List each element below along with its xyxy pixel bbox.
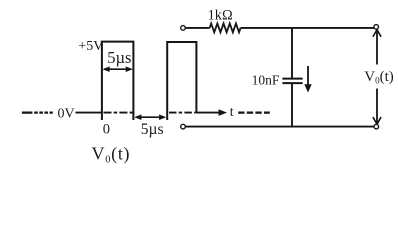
wire: axis dashes after t (238, 111, 270, 113)
label t (230, 105, 234, 120)
svg-text:0V: 0V (58, 107, 75, 122)
wire: top terminal to resistor (185, 27, 209, 29)
capacitor C1 plates (282, 79, 302, 84)
svg-text:10nF: 10nF (252, 72, 280, 87)
wire: resistor to top-right corner (241, 27, 375, 29)
arrow: Vo(t) measurement double arrow lower segment (373, 89, 381, 125)
label 5us gap (141, 121, 164, 138)
pulse 1 of V0(t) waveform (102, 42, 133, 120)
wire: axis dash-dot under pulse 1 (104, 112, 133, 114)
arrow: 5us gap between pulses (134, 114, 166, 120)
label 10nF (252, 72, 280, 87)
node: bottom input terminal (181, 124, 186, 129)
resistor R1 (210, 24, 241, 33)
label +5V (78, 39, 103, 54)
label Vo(t) output (364, 69, 394, 86)
wire: capacitor branch bottom (291, 84, 293, 128)
label 0V (58, 107, 75, 122)
arrow: Vo(t) measurement double arrow upper segment (373, 30, 381, 65)
pulse 2 of V0(t) waveform (167, 42, 196, 120)
svg-text:0: 0 (103, 121, 110, 137)
svg-text:+5V: +5V (78, 39, 103, 54)
node: bottom output terminal (374, 124, 379, 129)
label 5us pulse width (107, 48, 131, 67)
wire: 0V axis dash-dot lead-in (22, 111, 53, 113)
svg-text:V0(t): V0(t) (92, 144, 131, 166)
wire: axis solid segment before pulse 1 (76, 112, 103, 114)
wire: axis dash-dot under pulse 2 (169, 112, 195, 114)
wire: capacitor branch top (291, 28, 293, 78)
wire: axis solid to t arrow (196, 109, 227, 116)
label 0 (origin) (103, 121, 110, 137)
label 1kOhm (208, 7, 233, 23)
svg-text:t: t (230, 105, 234, 120)
svg-text:5µs: 5µs (107, 48, 131, 67)
arrow: capacitor current direction (304, 66, 311, 93)
arrow: 5us width of pulse 1 (103, 66, 133, 72)
svg-text:5µs: 5µs (141, 121, 164, 138)
node: top input terminal (181, 26, 186, 31)
svg-text:V0(t): V0(t) (364, 69, 394, 86)
wire: bottom rail (185, 126, 374, 128)
label V0(t) source (92, 144, 131, 166)
svg-text:1kΩ: 1kΩ (208, 7, 233, 23)
node: top output terminal (374, 25, 379, 30)
